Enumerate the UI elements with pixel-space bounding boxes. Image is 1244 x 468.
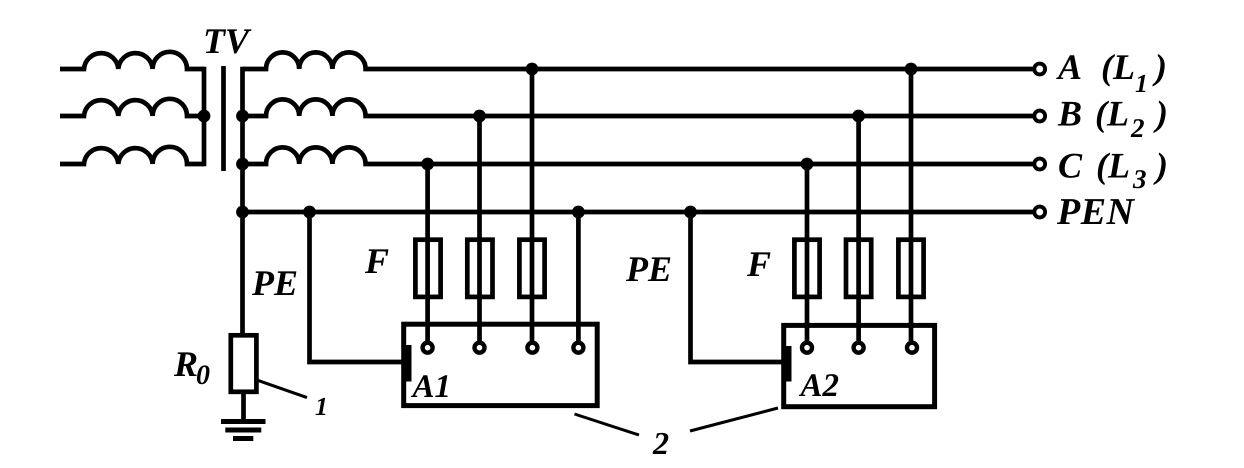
- fuse F (A2 group, middle): [846, 240, 871, 297]
- junction dot B drop 1: [473, 110, 486, 123]
- wire PEN: [243, 210, 1034, 215]
- fuse F (A1 group, right): [519, 240, 544, 297]
- junction dot secondary winding C: [236, 158, 249, 171]
- svg-text:A2: A2: [799, 368, 840, 404]
- junction dot secondary winding B: [236, 110, 249, 123]
- junction dot PEN PE2: [684, 206, 697, 219]
- leader line from A1 to label 2: [575, 414, 640, 435]
- transformer TV primary winding top: [60, 52, 204, 69]
- terminal circle C: [1034, 159, 1045, 170]
- svg-text:F: F: [746, 244, 771, 284]
- PE terminal bar on A1: [404, 345, 412, 382]
- consumer box A2: [784, 325, 935, 406]
- A2 terminal 2: [854, 343, 864, 353]
- wire drop from A to A2 fuse: [909, 69, 914, 341]
- svg-text:A(L1): A(L1): [1056, 47, 1167, 98]
- junction dot PEN N1: [572, 206, 585, 219]
- svg-text:PE: PE: [625, 249, 672, 289]
- fuse F (A2 group, left): [794, 240, 819, 297]
- svg-text:B(L2): B(L2): [1057, 94, 1168, 144]
- PE terminal bar on A2: [784, 346, 792, 382]
- A2 terminal 1: [802, 343, 812, 353]
- ground bar 1: [221, 419, 266, 424]
- transformer TV core: [221, 66, 226, 171]
- ground bar 3: [233, 436, 253, 441]
- svg-text:TV: TV: [203, 21, 252, 61]
- svg-text:PE: PE: [251, 263, 298, 303]
- ground bar 2: [225, 428, 261, 433]
- terminal circle A: [1034, 64, 1045, 75]
- PE conductor to A1: [310, 212, 404, 362]
- junction dot PEN PE1: [303, 206, 316, 219]
- junction dot A drop 2: [905, 63, 918, 76]
- fuse F (A1 group, left): [415, 240, 440, 297]
- svg-text:1: 1: [315, 392, 328, 421]
- junction dot A drop 1: [526, 63, 539, 76]
- fuse F (A2 group, right): [898, 240, 923, 297]
- transformer TV primary common vertical wire: [202, 67, 207, 166]
- PE conductor to A2: [691, 212, 785, 362]
- svg-text:R0: R0: [173, 344, 210, 391]
- svg-text:2: 2: [652, 425, 669, 461]
- svg-text:C(L3): C(L3): [1058, 146, 1168, 195]
- junction dot C drop 1: [421, 158, 434, 171]
- wire line A with secondary winding: [243, 52, 1034, 69]
- wire line B with secondary winding: [243, 99, 1034, 116]
- svg-text:A1: A1: [411, 369, 452, 405]
- A1 terminal 1: [423, 343, 433, 353]
- junction dot secondary PEN: [236, 206, 249, 219]
- wire drop from B to A2 fuse: [856, 116, 861, 341]
- A2 terminal 3: [907, 343, 917, 353]
- A1 terminal 3: [527, 343, 537, 353]
- consumer box A1: [404, 324, 598, 405]
- svg-text:F: F: [364, 241, 389, 281]
- transformer TV secondary common vertical wire down to resistor R0: [240, 67, 245, 336]
- A1 terminal 2: [475, 343, 485, 353]
- terminal circle PEN: [1034, 207, 1045, 218]
- A1 terminal 4: [573, 343, 583, 353]
- wire drop from C to A1 fuse: [425, 164, 430, 341]
- wire line C with secondary winding: [243, 147, 1034, 164]
- resistor R0: [231, 335, 257, 392]
- junction dot C drop 2: [801, 158, 814, 171]
- wire resistor R0 to ground: [241, 392, 246, 422]
- transformer TV primary winding bottom: [60, 147, 204, 164]
- terminal circle B: [1034, 111, 1045, 122]
- wire drop from B to A1 fuse: [477, 116, 482, 341]
- fuse F (A1 group, middle): [467, 240, 492, 297]
- transformer TV primary winding middle: [60, 99, 204, 116]
- wire drop from PEN to A1 terminal: [576, 212, 581, 341]
- junction dot B drop 2: [852, 110, 865, 123]
- leader line to label 1: [258, 380, 307, 397]
- wire drop from C to A2 fuse: [805, 164, 810, 341]
- wire drop from A to A1 fuse: [530, 69, 535, 341]
- leader line from A2 to label 2: [690, 408, 778, 431]
- svg-text:PEN: PEN: [1056, 191, 1136, 233]
- junction dot primary winding: [198, 110, 211, 123]
